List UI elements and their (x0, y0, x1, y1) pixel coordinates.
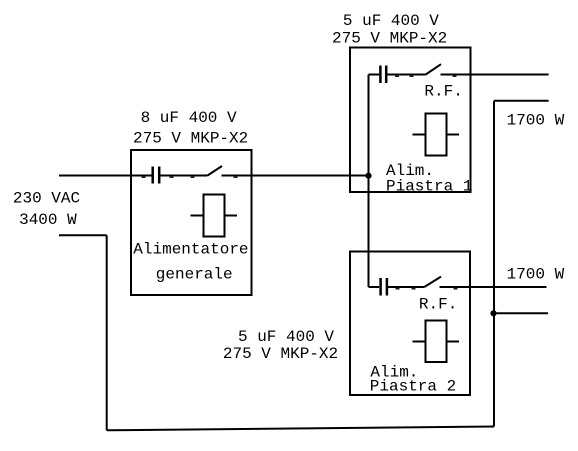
relay coil generale body (204, 195, 225, 237)
box Alim. Piastra 1 (350, 48, 471, 193)
relay coil no2 body (426, 321, 447, 363)
pin mark switch no2 right (454, 288, 458, 290)
svg-text:R.F.: R.F. (424, 82, 462, 100)
capacitor 5uF no2 plates (381, 278, 387, 296)
svg-text:R.F.: R.F. (419, 296, 457, 314)
svg-text:Alimentatore: Alimentatore (133, 241, 248, 259)
svg-text:3400 W: 3400 W (19, 211, 77, 229)
wire capacitor 8uF to switch generale (160, 175, 207, 177)
wire input N vertical down (106, 235, 108, 430)
box Alimentatore generale (131, 150, 252, 295)
wire bottom return (107, 427, 494, 431)
relay coil no1 body (426, 114, 447, 156)
wire capacitor no2 to switch R.F. no2 (388, 286, 424, 288)
pin mark capacitor no2 right (396, 288, 400, 290)
svg-text:230 VAC: 230 VAC (13, 190, 80, 208)
wire switch no1 to load 1700W no1 (441, 74, 549, 76)
svg-text:Piastra 2: Piastra 2 (370, 377, 456, 395)
svg-text:8 uF 400 V: 8 uF 400 V (141, 109, 237, 127)
pin mark capacitor 8uF left (142, 176, 146, 178)
switch generale blade (208, 166, 223, 176)
pin mark switch generale right (234, 176, 238, 178)
svg-text:275 V MKP-X2: 275 V MKP-X2 (332, 29, 447, 47)
node A junction dot (365, 173, 371, 179)
box Alim. Piastra 2 (350, 252, 470, 396)
switch R.F. no2 blade (424, 277, 441, 287)
relay coil generale leads (191, 215, 204, 217)
capacitor 8uF plates (153, 167, 160, 184)
svg-text:5 uF 400 V: 5 uF 400 V (238, 328, 334, 346)
node B junction dot (490, 310, 496, 316)
relay coil no2 leads (413, 341, 426, 343)
pin mark switch no2 left (412, 288, 416, 290)
svg-text:Piastra 1: Piastra 1 (386, 178, 472, 196)
wire capacitor no1 to switch R.F. no1 (387, 74, 426, 76)
switch R.F. no1 blade (426, 64, 441, 74)
wire input N (230 VAC) horizontal (59, 234, 107, 236)
relay coil no1 leads (413, 134, 426, 136)
pin mark capacitor 8uF right (170, 176, 174, 178)
pin mark switch generale left (191, 176, 195, 178)
wire right rail vertical (493, 101, 495, 427)
wire switch no2 to load 1700W no2 (440, 286, 547, 288)
svg-text:1700 W: 1700 W (507, 265, 565, 283)
wire vertical feed node A to piastra wires (368, 75, 370, 288)
svg-text:5 uF 400 V: 5 uF 400 V (343, 12, 439, 30)
wire feed to capacitor 5uF no2 (369, 286, 380, 288)
pin mark switch no1 right (453, 75, 457, 77)
svg-text:generale: generale (156, 265, 233, 283)
pin mark switch no1 left (410, 75, 414, 77)
wire load 1700W no1 return (494, 100, 549, 102)
pin mark capacitor no1 right (395, 75, 399, 77)
capacitor 5uF no1 plates (380, 66, 386, 84)
wire input L (230 VAC) to capacitor 8uF (59, 175, 152, 177)
svg-text:275 V MKP-X2: 275 V MKP-X2 (133, 130, 248, 148)
wire switch generale to node A (222, 175, 369, 177)
wire load 1700W no2 return from node B (494, 312, 549, 314)
svg-text:275 V MKP-X2: 275 V MKP-X2 (223, 345, 338, 363)
wire feed to capacitor 5uF no1 (369, 74, 380, 76)
svg-text:1700 W: 1700 W (507, 111, 565, 129)
